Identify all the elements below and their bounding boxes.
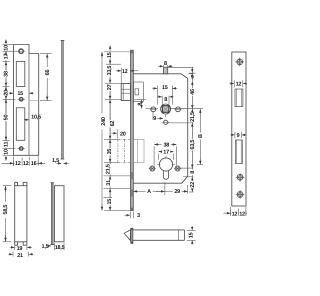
dim 8 (cyl to screws)	[190, 170, 197, 175]
svg-text:63,5: 63,5	[190, 140, 196, 150]
svg-text:12: 12	[239, 211, 245, 217]
dust box side view body	[54, 186, 64, 242]
dim 10 (strike top)	[3, 45, 10, 51]
svg-text:33,5: 33,5	[107, 66, 113, 76]
cylinder screw right	[174, 166, 181, 171]
dim 63.5	[190, 139, 196, 151]
svg-text:240: 240	[101, 117, 107, 126]
svg-text:62: 62	[110, 121, 116, 127]
fp bottom dims 12 12	[224, 207, 248, 217]
svg-text:12: 12	[15, 161, 21, 167]
dim 20	[3, 89, 10, 96]
dim 33.5	[107, 65, 114, 77]
svg-text:9: 9	[237, 133, 240, 139]
svg-text:1,5: 1,5	[52, 158, 59, 164]
svg-text:27: 27	[107, 84, 113, 90]
svg-text:8: 8	[164, 97, 167, 103]
dim 31	[106, 179, 113, 186]
dim 15 (latch height)	[187, 226, 196, 244]
dim 27	[107, 84, 114, 91]
spindle hub	[161, 104, 171, 117]
dim 10.5 (strike lip width)	[24, 115, 41, 121]
svg-text:8: 8	[190, 171, 196, 174]
svg-text:3: 3	[137, 213, 140, 219]
dust box side view flange	[50, 183, 54, 245]
svg-text:17: 17	[4, 54, 10, 60]
dim 22	[190, 181, 197, 188]
svg-text:38: 38	[163, 142, 169, 148]
svg-text:12: 12	[236, 82, 242, 88]
dim 11	[3, 141, 10, 147]
svg-text:12: 12	[122, 69, 128, 75]
deadbolt thrown (dashed)	[118, 139, 130, 162]
deadbolt inside case	[133, 139, 144, 162]
strike screw hole top	[17, 49, 26, 53]
dim A / 29 (backset line)	[133, 182, 188, 195]
dim 1.5 (strike thickness)	[52, 158, 69, 164]
strike left dimension chain	[3, 40, 18, 161]
svg-text:20: 20	[120, 131, 126, 137]
svg-text:8: 8	[164, 61, 167, 67]
dim 15 (fp top)	[107, 52, 114, 58]
dim 10 (strike bottom)	[3, 149, 10, 155]
dim 21 (dust box outer width)	[8, 252, 33, 259]
svg-text:21,5: 21,5	[106, 164, 112, 174]
fp latch cutout	[235, 89, 243, 107]
svg-text:8: 8	[138, 103, 144, 106]
left inner dimension chain of lock	[104, 46, 131, 211]
svg-text:66: 66	[45, 70, 51, 76]
dim 66 (strike lip)	[40, 54, 52, 101]
strike deadbolt window	[16, 108, 25, 141]
dim 240 (lock faceplate length)	[100, 52, 107, 211]
chain arrowheads	[6, 52, 192, 211]
svg-text:12: 12	[232, 211, 238, 217]
svg-text:21: 21	[17, 253, 23, 259]
dim 9 (deadbolt cutout)	[231, 132, 246, 139]
dim B (faceplate length)	[197, 109, 204, 165]
strike screw hole middle	[17, 98, 25, 101]
svg-text:29: 29	[174, 189, 180, 195]
dim 12 (latch projection)	[116, 68, 138, 83]
faceplate outline	[232, 52, 246, 206]
dim 17 (cylinder diameter)	[158, 149, 173, 160]
fp deadbolt cutout	[236, 140, 243, 164]
svg-text:A: A	[147, 189, 151, 195]
svg-text:15: 15	[189, 232, 195, 238]
hub side post left	[150, 107, 157, 112]
svg-text:B: B	[198, 134, 204, 138]
svg-text:9: 9	[153, 116, 156, 122]
latch guide inside case	[133, 82, 143, 102]
dim 12 (latch cutout)	[230, 80, 247, 87]
dim 50	[3, 114, 10, 121]
dim 38 (cylinder screws)	[154, 142, 177, 166]
svg-text:21,5: 21,5	[190, 112, 196, 122]
dust box face view	[15, 182, 27, 245]
latch bolt face view	[121, 84, 130, 101]
dim 21.5	[105, 164, 112, 174]
svg-text:19: 19	[17, 246, 23, 252]
dim 62	[109, 120, 116, 127]
svg-text:35: 35	[107, 149, 113, 155]
svg-text:11: 11	[4, 142, 10, 148]
svg-text:50: 50	[4, 115, 10, 121]
lock case outline	[133, 74, 187, 183]
dim 8 (spindle square)	[158, 96, 174, 105]
latch bolt side view	[124, 228, 184, 244]
dim 8 (collar width)	[158, 61, 172, 67]
strike side view bar	[61, 41, 65, 160]
dim 8 (latch to hub, vertical)	[134, 100, 158, 109]
fp screw top	[235, 58, 244, 67]
svg-text:15: 15	[17, 91, 23, 97]
dim 46	[190, 88, 197, 95]
strike bottom dims 12 12 16	[2, 157, 46, 168]
svg-text:10,5: 10,5	[31, 115, 41, 121]
lock faceplate bar	[130, 50, 133, 210]
svg-text:15: 15	[162, 85, 168, 91]
dim 38	[3, 70, 10, 77]
dim 15 (fp bottom)	[106, 198, 113, 205]
strike latch window	[16, 62, 25, 87]
svg-text:9: 9	[191, 75, 194, 81]
dim 9 (collar height)	[189, 68, 195, 81]
svg-text:10: 10	[4, 45, 10, 51]
svg-text:10: 10	[4, 149, 10, 155]
cylinder screw left	[149, 166, 156, 171]
svg-text:15: 15	[107, 199, 113, 205]
dim 21.5 (hub to hole)	[190, 112, 197, 122]
dim 18,5 (dust box depth)	[54, 243, 64, 251]
dim 58,5 (dust box height)	[3, 186, 12, 242]
hub side post right	[175, 107, 182, 112]
fp screw bottom	[236, 190, 245, 199]
svg-text:46: 46	[190, 89, 196, 95]
strike plate outline	[14, 45, 39, 156]
dim 20 (deadbolt throw)	[112, 129, 126, 138]
svg-text:16: 16	[31, 161, 37, 167]
svg-text:20: 20	[4, 90, 10, 96]
dim 19 (dust box inner width)	[10, 246, 32, 252]
svg-text:1,5: 1,5	[42, 244, 49, 250]
dim 15 (strike width)	[9, 91, 33, 97]
svg-text:17: 17	[163, 150, 169, 156]
svg-text:31: 31	[106, 180, 112, 186]
dim 9 (hub to hole below)	[153, 112, 163, 122]
svg-text:12: 12	[23, 161, 29, 167]
dim 17	[3, 53, 10, 60]
dim 15 (hub boss)	[152, 85, 177, 104]
svg-text:18,5: 18,5	[55, 245, 65, 251]
dim 3 (faceplate thickness)	[124, 212, 140, 220]
euro cylinder	[157, 156, 175, 180]
svg-text:15: 15	[107, 52, 113, 58]
svg-text:22: 22	[190, 182, 196, 188]
svg-text:58,5: 58,5	[3, 205, 9, 215]
small hole below hub	[162, 120, 169, 124]
fp screw middle	[236, 173, 245, 182]
dim 35	[107, 148, 114, 155]
dim 1,5 (dust box flange)	[42, 244, 51, 250]
svg-text:38: 38	[4, 71, 10, 77]
follower collar	[164, 67, 168, 74]
strike screw hole bottom	[17, 147, 25, 150]
right dimension chain of lock	[168, 67, 203, 192]
